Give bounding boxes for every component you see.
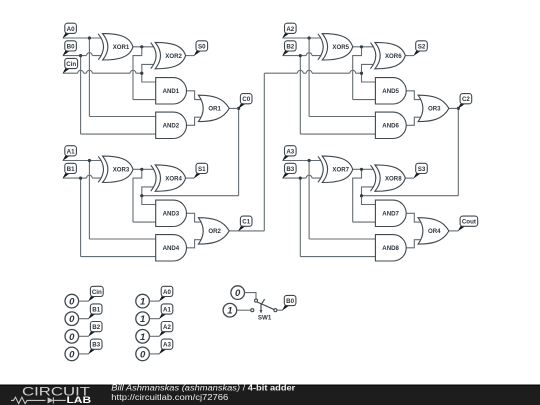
and gate AND1 — [156, 78, 187, 104]
wire XOR1 output jog down — [133, 47, 142, 100]
switch SW1 — [251, 299, 277, 321]
wire XOR3 output to XOR4 — [133, 168, 154, 170]
wire AND2 output to OR1 — [187, 117, 202, 125]
CircuitLab logo waveform — [11, 397, 66, 403]
node XOR5 output junction — [360, 45, 363, 48]
flag A1 — [159, 304, 173, 319]
node B1 junction — [79, 177, 82, 180]
svg-text:B2: B2 — [92, 324, 100, 331]
wire AND6 output to OR3 — [406, 117, 421, 125]
wire XOR4 output to S1 — [186, 177, 195, 179]
wire AND6 upper input — [309, 116, 376, 118]
svg-text:XOR3: XOR3 — [113, 167, 130, 174]
wire AND3 output to OR2 — [187, 213, 202, 222]
wire source to B3 flag — [79, 353, 89, 355]
digital source 0 for A3 — [136, 347, 150, 361]
svg-text:OR3: OR3 — [428, 106, 441, 113]
wire XOR3 output jog down — [133, 169, 142, 222]
svg-text:0: 0 — [69, 297, 75, 308]
wire source to A0 flag — [149, 300, 159, 302]
wire AND1 lower input — [133, 99, 156, 101]
node A3 junction — [308, 159, 311, 162]
svg-text:SW1: SW1 — [258, 314, 272, 321]
svg-text:AND7: AND7 — [382, 211, 399, 218]
wire XOR7 output jog down — [353, 169, 362, 222]
svg-text:0: 0 — [69, 349, 75, 360]
wire XOR5 output jog down — [353, 47, 362, 100]
node C0 junction — [237, 107, 240, 110]
node A1 junction — [88, 159, 91, 162]
svg-text:A1: A1 — [163, 307, 171, 314]
footer bar — [0, 385, 540, 405]
svg-text:A0: A0 — [163, 289, 171, 296]
wire carry branch into XOR4 — [142, 187, 156, 205]
flag S2 — [413, 41, 427, 56]
svg-text:XOR6: XOR6 — [385, 53, 402, 60]
wire source to B1 flag — [79, 318, 89, 320]
wire source to B2 flag — [79, 335, 89, 337]
wire AND4 lower input — [81, 256, 157, 258]
svg-text:XOR7: XOR7 — [332, 167, 349, 174]
svg-text:S2: S2 — [418, 43, 426, 50]
flag A2 — [282, 23, 296, 38]
flag Cout — [458, 216, 478, 231]
wire source 0 to switch throw — [245, 293, 257, 300]
svg-text:S3: S3 — [418, 166, 426, 173]
wire AND2 lower input — [81, 133, 157, 135]
wire XOR2 output to S0 — [186, 55, 195, 57]
svg-text:AND4: AND4 — [163, 245, 180, 252]
svg-text:XOR2: XOR2 — [165, 53, 182, 60]
flag A0 — [62, 23, 76, 38]
xor gate XOR6 — [371, 42, 406, 68]
node XOR1 output junction — [140, 45, 143, 48]
flag B3 — [88, 339, 102, 354]
xor gate XOR4 — [151, 165, 186, 191]
wire carry branch into XOR2 — [142, 64, 156, 82]
wire AND7 lower input — [353, 221, 376, 223]
wire C0 carry from OR1 down to bit-1 adder — [238, 108, 240, 195]
wire A3 vertical branch to AND8 — [308, 161, 310, 240]
svg-text:S1: S1 — [198, 166, 206, 173]
wire source to A2 flag — [149, 335, 159, 337]
and gate AND5 — [375, 78, 406, 104]
svg-text:B2: B2 — [286, 43, 294, 50]
xor gate XOR8 — [371, 165, 406, 191]
wire XOR8 output to S3 — [405, 177, 414, 179]
digital source 1 for A1 — [136, 312, 150, 326]
svg-text:C1: C1 — [242, 219, 250, 226]
digital source 0 for Cin — [65, 294, 79, 308]
wire carry branch into XOR6 — [362, 64, 376, 82]
node carry junction — [140, 194, 143, 197]
svg-text:1: 1 — [140, 297, 145, 308]
or gate OR4 — [418, 218, 449, 244]
svg-text:B3: B3 — [286, 166, 294, 173]
digital source 1 for A0 — [136, 294, 150, 308]
xor gate XOR5 — [318, 34, 353, 60]
node B2 junction — [299, 54, 302, 57]
svg-text:http://circuitlab.com/cj72766: http://circuitlab.com/cj72766 — [111, 392, 228, 402]
wire Cin input row — [63, 70, 142, 73]
flag B2 — [282, 41, 296, 56]
flag S1 — [194, 163, 208, 178]
svg-text:1: 1 — [140, 314, 145, 325]
wire XOR5 output to XOR6 — [353, 46, 374, 48]
xor gate XOR1 — [98, 34, 133, 60]
flag S3 — [413, 163, 427, 178]
wire switch common to B0 flag — [277, 309, 283, 311]
wire AND4 upper input — [89, 238, 156, 240]
wire A1 vertical branch to AND4 — [88, 161, 90, 240]
wire AND6 lower input — [300, 133, 376, 135]
svg-text:AND3: AND3 — [163, 211, 180, 218]
flag A2 — [159, 322, 173, 337]
flag B0 — [62, 41, 76, 56]
svg-text:B0: B0 — [67, 43, 75, 50]
wire A0 vertical branch to AND2 — [88, 38, 90, 117]
node B3 junction — [299, 177, 302, 180]
flag B0 at switch — [282, 295, 296, 310]
wire source to Cin flag — [79, 300, 89, 302]
node A0 junction — [88, 36, 91, 39]
wire AND8 upper input — [309, 238, 376, 240]
wire OR4 output — [449, 230, 458, 232]
svg-text:A0: A0 — [67, 26, 75, 33]
and gate AND2 — [156, 112, 187, 138]
flag B2 — [88, 322, 102, 337]
wire AND2 upper input — [89, 116, 156, 118]
svg-text:Cin: Cin — [92, 289, 102, 296]
wire AND5 lower input — [353, 99, 376, 101]
svg-text:A2: A2 — [286, 26, 294, 33]
svg-text:XOR5: XOR5 — [332, 44, 349, 51]
node C2 junction — [457, 107, 460, 110]
flag C2 — [458, 94, 472, 109]
svg-text:B1: B1 — [67, 166, 75, 173]
svg-text:XOR8: XOR8 — [385, 175, 402, 182]
svg-text:A3: A3 — [286, 148, 294, 155]
and gate AND4 — [156, 235, 187, 261]
svg-text:Cout: Cout — [462, 219, 476, 226]
node XOR7 output junction — [360, 168, 363, 171]
svg-text:1: 1 — [227, 306, 232, 317]
digital source 0 for B1 — [65, 312, 79, 326]
flag B3 — [282, 163, 296, 178]
wire B3 input row — [283, 175, 321, 178]
wire B2 input row — [283, 53, 321, 56]
wire OR2 output — [229, 230, 238, 232]
xor gate XOR2 — [151, 42, 186, 68]
flag A1 — [62, 146, 76, 161]
svg-text:1: 1 — [140, 332, 145, 343]
svg-text:A3: A3 — [163, 342, 171, 349]
svg-text:0: 0 — [69, 332, 75, 343]
svg-text:C0: C0 — [242, 96, 250, 103]
digital source 0 for B2 — [65, 330, 79, 344]
node A2 junction — [308, 36, 311, 39]
node carry junction — [360, 72, 363, 75]
svg-text:AND5: AND5 — [382, 88, 399, 95]
wire A1 input row — [63, 160, 101, 162]
wire OR3 output — [449, 107, 458, 109]
svg-text:0: 0 — [69, 314, 75, 325]
flag A0 — [159, 286, 173, 301]
and gate AND8 — [375, 235, 406, 261]
and gate AND7 — [375, 200, 406, 226]
xor gate XOR7 — [318, 156, 353, 182]
wire source to A3 flag — [149, 353, 159, 355]
svg-text:AND6: AND6 — [382, 123, 399, 130]
svg-text:OR4: OR4 — [428, 228, 441, 235]
svg-text:A2: A2 — [163, 324, 171, 331]
wire AND4 output to OR2 — [187, 240, 202, 248]
wire B3 vertical branch to AND8 — [299, 178, 301, 257]
wire A2 input row — [283, 37, 321, 39]
svg-text:OR2: OR2 — [208, 228, 221, 235]
svg-text:B0: B0 — [286, 298, 294, 305]
flag A3 — [159, 339, 173, 354]
svg-text:0: 0 — [235, 288, 241, 299]
wire C1 carry from OR2 up to bit-2 adder — [239, 230, 265, 232]
svg-text:A1: A1 — [67, 148, 75, 155]
xor gate XOR3 — [98, 156, 133, 182]
wire XOR6 output to S2 — [405, 55, 414, 57]
wire A0 input row — [63, 37, 101, 39]
svg-text:B3: B3 — [92, 342, 100, 349]
svg-text:0: 0 — [140, 349, 146, 360]
svg-text:AND1: AND1 — [163, 88, 180, 95]
wire A2 vertical branch to AND6 — [308, 38, 310, 117]
wire B2 vertical branch to AND6 — [299, 56, 301, 135]
svg-text:Cin: Cin — [66, 61, 76, 68]
wire OR1 output — [229, 107, 238, 109]
wire carry branch into XOR8 — [362, 187, 376, 205]
digital source 0 for switch throw — [231, 286, 245, 300]
flag B1 — [62, 163, 76, 178]
wire XOR1 output to XOR2 — [133, 46, 154, 48]
node B0 junction — [79, 54, 82, 57]
wire B1 vertical branch to AND4 — [80, 178, 82, 257]
svg-text:AND8: AND8 — [382, 245, 399, 252]
node carry junction — [360, 194, 363, 197]
svg-text:AND2: AND2 — [163, 123, 180, 130]
svg-text:C2: C2 — [462, 96, 470, 103]
svg-text:XOR1: XOR1 — [113, 44, 130, 51]
wire source to A1 flag — [149, 318, 159, 320]
wire AND7 output to OR4 — [406, 213, 421, 222]
flag C0 — [238, 94, 252, 109]
svg-text:OR1: OR1 — [208, 106, 221, 113]
node XOR3 output junction — [140, 168, 143, 171]
wire AND8 output to OR4 — [406, 240, 421, 248]
flag C1 — [238, 216, 252, 231]
wire AND1 output to OR1 — [187, 91, 202, 100]
flag Cin — [88, 286, 103, 301]
flag A3 — [282, 146, 296, 161]
flag S0 — [194, 41, 208, 56]
wire B0 vertical branch to AND2 — [80, 56, 82, 135]
wire B1 input row — [63, 175, 101, 178]
digital source 1 for switch throw — [223, 303, 237, 317]
svg-text:XOR4: XOR4 — [165, 175, 182, 182]
flag B1 — [88, 304, 102, 319]
or gate OR2 — [198, 218, 229, 244]
wire AND5 output to OR3 — [406, 91, 421, 100]
wire B0 input row — [63, 53, 101, 56]
and gate AND3 — [156, 200, 187, 226]
or gate OR3 — [418, 95, 449, 121]
wire source 1 to switch pole — [237, 309, 251, 311]
svg-text:S0: S0 — [198, 43, 206, 50]
digital source 1 for A2 — [136, 330, 150, 344]
wire A3 input row — [283, 160, 321, 162]
flag Cin — [62, 58, 77, 73]
or gate OR1 — [198, 95, 229, 121]
wire XOR7 output to XOR8 — [353, 168, 374, 170]
digital source 0 for B3 — [65, 347, 79, 361]
node carry junction — [140, 72, 143, 75]
wire C2 carry from OR3 down to bit-3 adder — [457, 108, 459, 195]
svg-text:LAB: LAB — [67, 395, 92, 405]
wire AND3 lower input — [133, 221, 156, 223]
and gate AND6 — [375, 112, 406, 138]
svg-text:B1: B1 — [92, 307, 100, 314]
wire AND8 lower input — [300, 256, 376, 258]
